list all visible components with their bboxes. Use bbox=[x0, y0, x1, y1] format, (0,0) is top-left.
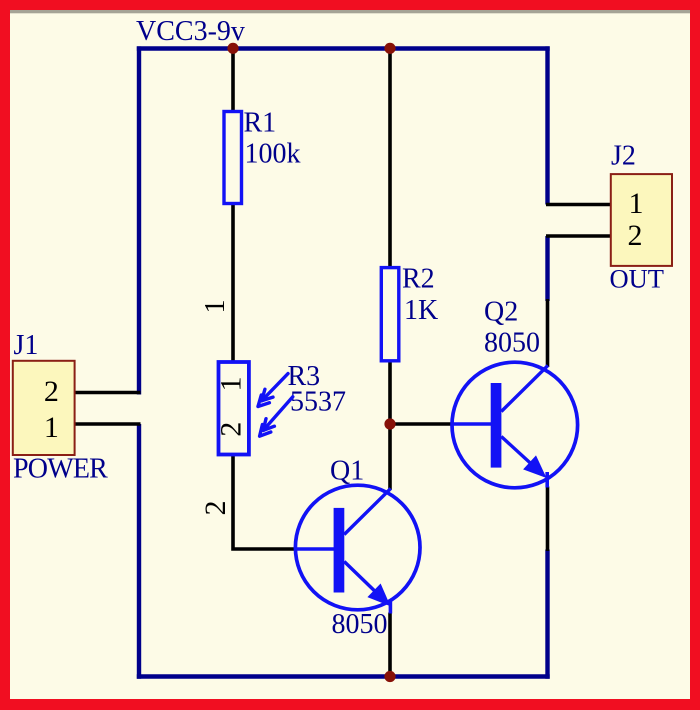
junction node at VCC/R1 bbox=[227, 43, 238, 54]
wire: left rail upper segment (VCC net, J1 pin2 to top rail) bbox=[137, 46, 141, 394]
Q2 base bar bbox=[491, 383, 502, 468]
resistor R2 body bbox=[381, 268, 399, 361]
Q1 emitter stroke bbox=[344, 562, 383, 600]
svg-text:POWER: POWER bbox=[13, 454, 108, 485]
Q1 emitter arrowhead bbox=[367, 584, 390, 607]
annotation arrow to R3 pin 1 bbox=[258, 374, 288, 407]
wire: node to Q2 base (black) bbox=[389, 422, 454, 426]
wire: R1 bottom to R3 top (black) bbox=[231, 204, 235, 361]
wire: top rail junction to R2 top (black) bbox=[388, 48, 392, 267]
wire: J2 pin 2 drop (navy) bbox=[545, 236, 549, 301]
Q2 emitter stroke bbox=[501, 437, 539, 472]
wire: J2 column black segment to Q2 collector bbox=[546, 299, 550, 367]
svg-text:100k: 100k bbox=[245, 139, 301, 170]
junction node at R2/Q2 base/Q1 collector bbox=[384, 418, 395, 429]
svg-text:J2: J2 bbox=[611, 141, 636, 172]
wire: right drop from top rail to J2 pin 1 bbox=[545, 46, 549, 204]
svg-text:1: 1 bbox=[629, 187, 644, 220]
resistor R1 body bbox=[224, 112, 242, 204]
wire: Q2 emitter riser to bottom rail (navy) bbox=[545, 550, 549, 679]
svg-text:1K: 1K bbox=[404, 295, 438, 326]
Q1 base lead (blue) bbox=[296, 547, 335, 551]
wire: J1 pin 2 to left rail (black) bbox=[74, 391, 141, 395]
Q2 emitter pin stub bbox=[545, 472, 549, 488]
svg-text:2: 2 bbox=[44, 375, 59, 408]
svg-text:1: 1 bbox=[44, 411, 59, 444]
transistor Q1 bbox=[295, 456, 420, 641]
junction node at VCC/R2 column bbox=[384, 43, 395, 54]
svg-text:Q2: Q2 bbox=[484, 297, 518, 328]
wire: Q1 emitter down to bottom rail (black) bbox=[388, 613, 392, 677]
svg-text:VCC3-9v: VCC3-9v bbox=[136, 16, 245, 47]
svg-text:8050: 8050 bbox=[484, 328, 540, 359]
wire: bottom ground rail bbox=[137, 674, 550, 678]
Q1 emitter pin stub bbox=[389, 600, 393, 614]
Q1 base bar bbox=[334, 508, 345, 593]
wire: left rail lower segment (J1 pin1 down) bbox=[137, 424, 141, 679]
svg-text:1: 1 bbox=[200, 300, 231, 314]
Q1 body circle bbox=[295, 485, 420, 610]
svg-text:R2: R2 bbox=[402, 264, 435, 295]
Q2 emitter arrowhead bbox=[523, 455, 546, 478]
svg-text:1: 1 bbox=[215, 377, 248, 392]
wire: Q2 emitter down black segment bbox=[546, 487, 550, 552]
svg-text:R1: R1 bbox=[244, 108, 277, 139]
Q2 collector stroke bbox=[501, 366, 548, 412]
wire: top VCC rail bbox=[137, 46, 550, 50]
wire: J1 pin 1 to left rail (black) bbox=[74, 422, 141, 426]
svg-text:Q1: Q1 bbox=[330, 456, 364, 487]
Q2 base lead (blue) bbox=[453, 422, 492, 426]
connector J2 box bbox=[611, 174, 672, 266]
wire: R3 bottom down to Q1 base level (black) bbox=[233, 456, 297, 550]
wire: J2 pin 1 lead (black) bbox=[546, 203, 611, 207]
connector J1 box bbox=[13, 361, 75, 455]
svg-text:OUT: OUT bbox=[610, 264, 664, 294]
wire: R2 bottom through node to Q1 collector (black) bbox=[388, 362, 392, 491]
svg-text:2: 2 bbox=[199, 501, 232, 516]
transistor Q2 bbox=[452, 297, 578, 488]
svg-text:8050: 8050 bbox=[332, 609, 388, 640]
svg-text:2: 2 bbox=[215, 422, 248, 437]
wire: J2 pin 2 lead (black) bbox=[546, 234, 611, 238]
svg-text:2: 2 bbox=[628, 219, 643, 252]
junction node at bottom rail/Q1 emitter bbox=[384, 671, 395, 682]
potentiometer R3 body bbox=[219, 362, 249, 455]
Q2 body circle bbox=[452, 362, 578, 488]
Q1 collector stroke bbox=[344, 489, 391, 535]
annotation arrow to R3 pin 2 bbox=[260, 397, 293, 436]
svg-text:5537: 5537 bbox=[290, 387, 346, 418]
svg-text:J1: J1 bbox=[14, 330, 39, 361]
wire: VCC to R1 top (black) bbox=[231, 48, 235, 111]
